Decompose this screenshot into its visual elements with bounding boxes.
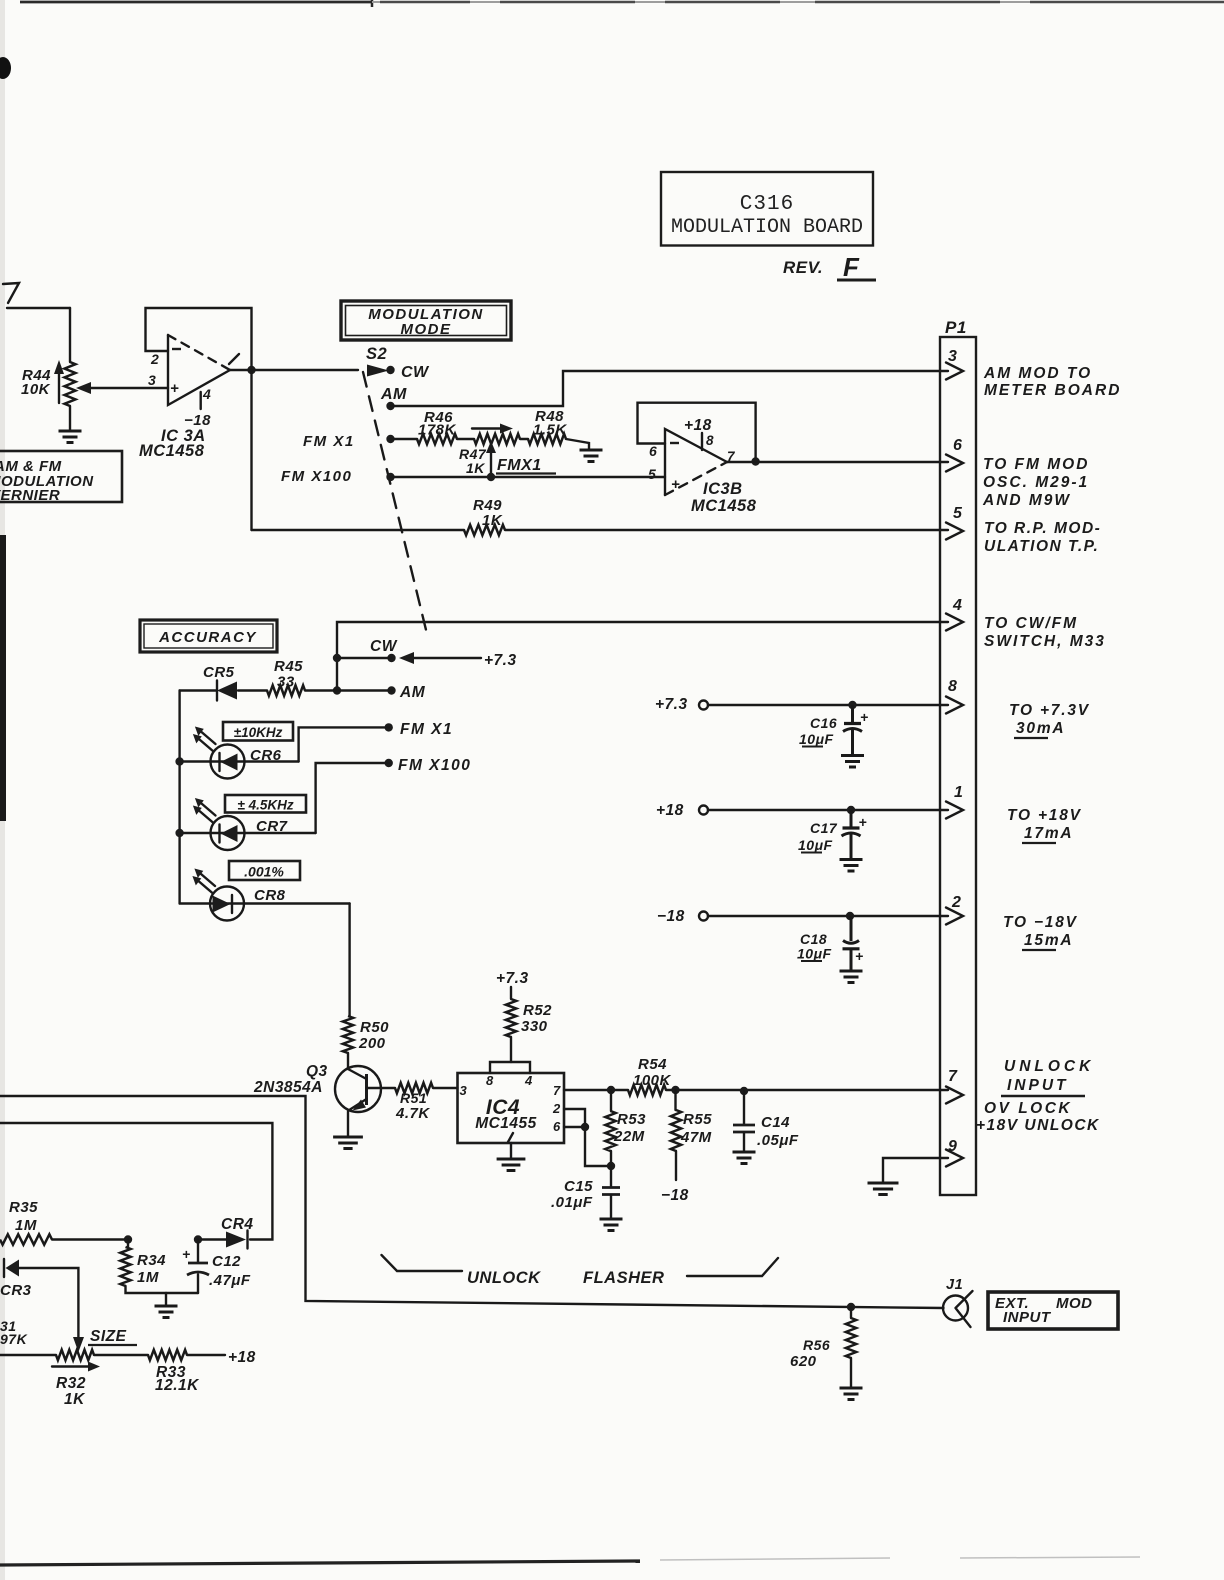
node -18 (R55)	[661, 1187, 689, 1204]
potentiometer R44	[21, 308, 76, 430]
resistor R49	[252, 497, 949, 535]
svg-text:22M: 22M	[613, 1128, 645, 1145]
svg-text:+7.3: +7.3	[496, 970, 529, 987]
svg-text:MODULATION BOARD: MODULATION BOARD	[671, 216, 863, 239]
wire IC4 pins 2,6 to C15	[564, 1109, 615, 1170]
label box .001%	[229, 861, 300, 880]
svg-text:2: 2	[150, 351, 159, 367]
label box ACCURACY	[140, 620, 277, 652]
label box &#177;10KHz	[223, 722, 293, 741]
svg-text:8: 8	[948, 678, 957, 695]
svg-text:SWITCH, M33: SWITCH, M33	[984, 633, 1106, 650]
svg-text:178K: 178K	[418, 422, 457, 439]
svg-text:+18: +18	[228, 1349, 256, 1366]
wire IC3A pin3 to R44 wiper	[76, 382, 168, 394]
svg-text:2: 2	[552, 1101, 561, 1116]
svg-text:C316: C316	[740, 193, 794, 216]
svg-text:R35: R35	[9, 1199, 38, 1216]
svg-text:VERNIER: VERNIER	[0, 487, 60, 504]
wire IC3A output down to R49 line	[250, 370, 252, 530]
svg-text:+18: +18	[656, 802, 684, 819]
terminal +7.3	[655, 696, 948, 713]
resistor R52	[506, 999, 552, 1062]
resistor R55	[671, 1090, 712, 1180]
svg-text:CW: CW	[370, 638, 398, 655]
resistor R46	[417, 409, 457, 444]
node +7.3 (R52)	[496, 970, 529, 999]
svg-text:C16: C16	[810, 715, 837, 731]
node IC3A output	[247, 366, 255, 374]
wire FM X1 contact to R46	[391, 438, 418, 440]
svg-text:MC1458: MC1458	[691, 497, 757, 515]
svg-text:TO +7.3V: TO +7.3V	[1009, 702, 1090, 719]
svg-text:UNLOCK: UNLOCK	[1004, 1058, 1094, 1075]
svg-text:REV.: REV.	[783, 258, 823, 277]
svg-text:OV LOCK: OV LOCK	[984, 1100, 1072, 1117]
diode CR5	[180, 664, 237, 701]
svg-text:FMX1: FMX1	[497, 457, 542, 474]
ground (IC4 pin1)	[497, 1159, 526, 1171]
svg-text:8: 8	[706, 433, 714, 448]
svg-text:CR6: CR6	[250, 747, 282, 764]
svg-text:IC3B: IC3B	[703, 480, 743, 498]
ground (C14)	[733, 1152, 756, 1164]
svg-text:10K: 10K	[21, 381, 51, 398]
svg-text:C14: C14	[761, 1114, 790, 1131]
wire AM contact to P1 pin3	[391, 371, 949, 406]
capacitor C15	[551, 1166, 620, 1218]
resistor R54	[628, 1056, 672, 1095]
svg-text:5: 5	[648, 466, 656, 482]
svg-text:R32: R32	[56, 1375, 86, 1392]
svg-text:METER BOARD: METER BOARD	[984, 382, 1121, 399]
switch S2B contact FM X1	[299, 721, 454, 762]
svg-text:MOD: MOD	[1056, 1295, 1093, 1312]
ground (C15)	[600, 1219, 623, 1231]
capacitor C17	[798, 810, 867, 859]
svg-text:1M: 1M	[15, 1217, 37, 1234]
svg-text:+: +	[182, 1246, 191, 1262]
svg-text:+: +	[860, 709, 869, 725]
svg-text:CR3: CR3	[0, 1282, 32, 1299]
label box MODULATION MODE	[341, 301, 511, 340]
svg-text:CW: CW	[401, 364, 430, 381]
svg-text:4: 4	[524, 1073, 533, 1088]
resistor R50	[343, 1016, 389, 1053]
switch S2	[366, 345, 387, 363]
svg-text:4.7K: 4.7K	[395, 1105, 430, 1122]
svg-text:1M: 1M	[137, 1269, 159, 1286]
node +18 (R33)	[228, 1349, 256, 1366]
wire IC4 pin7 net	[564, 1086, 948, 1095]
connector J1	[943, 1277, 973, 1327]
P1 pin 2	[946, 894, 1078, 950]
svg-text:INPUT: INPUT	[1003, 1309, 1052, 1326]
svg-text:.001%: .001%	[244, 864, 284, 880]
ground (C17)	[840, 860, 863, 872]
svg-text:±10KHz: ±10KHz	[234, 725, 283, 740]
svg-text:MODE: MODE	[401, 321, 452, 338]
brace UNLOCK FLASHER	[382, 1255, 779, 1287]
P1 pin 6	[946, 437, 1089, 509]
svg-text:1.5K: 1.5K	[533, 422, 567, 439]
wire R48 to ground	[566, 439, 589, 450]
svg-text:R51: R51	[400, 1090, 427, 1106]
potentiometer R32 (SIZE)	[0, 1328, 148, 1408]
resistor R31 (off-page)	[0, 1318, 28, 1347]
ground (C18)	[840, 971, 863, 983]
wire S2B common rail to P1 pin4	[337, 622, 948, 691]
resistor R56	[790, 1303, 856, 1387]
svg-text:R50: R50	[360, 1019, 389, 1036]
resistor R53	[605, 1090, 646, 1166]
label REV. F	[783, 252, 876, 282]
P1 pin 9	[946, 1138, 963, 1167]
svg-text:R53: R53	[617, 1111, 646, 1128]
svg-text:AND M9W: AND M9W	[982, 492, 1071, 509]
svg-text:.01μF: .01μF	[551, 1194, 593, 1211]
node 7 (off-page wire label)	[3, 283, 70, 308]
wire EXT MOD line (to J1)	[0, 1096, 944, 1308]
P1 pin 3	[946, 348, 1121, 399]
svg-text:7: 7	[948, 1068, 958, 1085]
capacitor C14	[733, 1091, 799, 1151]
capacitor C12	[182, 1235, 251, 1293]
svg-text:CR8: CR8	[254, 887, 286, 904]
label box AM & FM MODULATION VERNIER	[0, 451, 122, 504]
svg-text:4: 4	[202, 386, 211, 402]
svg-text:TO CW/FM: TO CW/FM	[984, 615, 1078, 632]
svg-text:10μF: 10μF	[798, 837, 833, 853]
svg-text:−18: −18	[657, 908, 685, 925]
svg-text:+18V UNLOCK: +18V UNLOCK	[976, 1117, 1100, 1134]
svg-text:FM X1: FM X1	[303, 433, 355, 450]
svg-text:17mA: 17mA	[1024, 825, 1073, 842]
switch S2 contact FM X100	[281, 468, 395, 485]
diode CR3	[0, 1259, 84, 1352]
wire P1 pin9 to ground	[883, 1158, 948, 1182]
svg-text:TO FM MOD: TO FM MOD	[983, 456, 1089, 473]
capacitor C18	[797, 916, 864, 971]
svg-text:10μF: 10μF	[797, 946, 832, 962]
P1 pin 5	[946, 505, 1101, 555]
svg-text:INPUT: INPUT	[1007, 1077, 1069, 1094]
svg-text:FM X100: FM X100	[281, 468, 352, 485]
wire FM X100 contact to IC3B pin5	[391, 473, 666, 481]
wire +7.3 to S2B CW contact	[399, 652, 481, 664]
resistor R35	[0, 1199, 128, 1245]
wire CR4 return line	[0, 1123, 272, 1240]
ground (C16)	[841, 756, 864, 768]
label box &#177;4.5KHz	[225, 795, 306, 813]
switch S2 contact CW	[386, 364, 430, 381]
svg-text:TO −18V: TO −18V	[1003, 914, 1078, 931]
svg-text:ACCURACY: ACCURACY	[158, 629, 257, 646]
svg-text:TO +18V: TO +18V	[1007, 807, 1082, 824]
svg-text:620: 620	[790, 1353, 817, 1370]
svg-text:C15: C15	[564, 1178, 593, 1195]
svg-text:.47μF: .47μF	[209, 1272, 251, 1289]
svg-text:Q3: Q3	[306, 1063, 328, 1080]
svg-text:+: +	[170, 380, 179, 397]
LED CR6	[175, 727, 298, 779]
svg-text:TO R.P. MOD-: TO R.P. MOD-	[984, 520, 1101, 537]
svg-text:FM X1: FM X1	[400, 721, 453, 738]
P1 pin 8	[946, 678, 1090, 738]
svg-text:2N3854A: 2N3854A	[253, 1079, 323, 1096]
svg-text:6: 6	[649, 443, 657, 459]
svg-text:C12: C12	[212, 1253, 241, 1270]
wire IC3B output to P1 pin6	[727, 461, 948, 463]
connector P1	[940, 318, 976, 1195]
svg-text:330: 330	[521, 1018, 548, 1035]
capacitor C16	[799, 705, 869, 755]
ground (R44)	[59, 431, 82, 443]
IC timer U-IC4 MC1455	[458, 1062, 565, 1158]
svg-text:−18: −18	[661, 1187, 689, 1204]
svg-text:47M: 47M	[680, 1129, 712, 1146]
wire IC3A output to S2 CW contact (arrow)	[230, 365, 389, 377]
wire IC3A feedback loop	[146, 308, 252, 370]
node IC3B output	[751, 457, 759, 465]
potentiometer R47	[459, 424, 520, 478]
resistor R33	[148, 1350, 225, 1394]
svg-text:FM X100: FM X100	[398, 757, 471, 774]
node FMX1	[496, 457, 556, 474]
svg-text:100K: 100K	[633, 1072, 672, 1089]
resistor R34	[120, 1235, 198, 1293]
svg-text:R45: R45	[274, 658, 303, 675]
svg-text:10μF: 10μF	[799, 731, 834, 747]
node +7.3 (S2B)	[484, 652, 517, 669]
svg-text:+18: +18	[684, 417, 712, 434]
svg-text:+: +	[855, 948, 864, 964]
svg-text:1K: 1K	[482, 512, 503, 529]
svg-text:AM MOD TO: AM MOD TO	[983, 365, 1092, 382]
svg-text:1K: 1K	[466, 460, 485, 476]
svg-text:12.1K: 12.1K	[155, 1377, 200, 1394]
P1 pin 1	[946, 784, 1082, 843]
svg-text:UNLOCK: UNLOCK	[467, 1269, 541, 1287]
terminal -18	[657, 908, 948, 925]
switch S2 wiper (dashed)	[363, 372, 428, 638]
svg-text:CR4: CR4	[221, 1216, 254, 1233]
wire CR8 to R50	[348, 904, 350, 1017]
terminal +18	[656, 802, 948, 819]
svg-text:CR7: CR7	[256, 818, 288, 835]
svg-text:+: +	[859, 814, 868, 830]
svg-text:AM: AM	[380, 386, 407, 403]
svg-text:R54: R54	[638, 1056, 667, 1073]
svg-text:P1: P1	[945, 318, 967, 337]
wire R46 to R47	[457, 438, 474, 440]
svg-text:+7.3: +7.3	[655, 696, 688, 713]
svg-text:33: 33	[277, 674, 295, 691]
svg-text:97K: 97K	[0, 1331, 28, 1347]
svg-text:R55: R55	[683, 1111, 712, 1128]
svg-text:200: 200	[358, 1035, 386, 1052]
svg-text:3: 3	[148, 372, 156, 388]
ground (R56)	[840, 1388, 863, 1400]
svg-text:6: 6	[953, 437, 962, 454]
resistor R51	[367, 1083, 458, 1122]
wire IC3B feedback loop	[638, 403, 756, 462]
svg-text:1: 1	[954, 784, 963, 801]
title box C316 MODULATION BOARD	[661, 172, 873, 246]
svg-text:R34: R34	[137, 1252, 166, 1269]
svg-text:30mA: 30mA	[1016, 720, 1065, 737]
svg-text:6: 6	[553, 1119, 561, 1134]
svg-text:F: F	[843, 252, 860, 282]
svg-text:15mA: 15mA	[1024, 932, 1073, 949]
ground (R34/C12)	[155, 1293, 178, 1318]
ground (Q3)	[333, 1137, 363, 1149]
switch S2B contact CW	[333, 638, 398, 662]
ground (pin9)	[868, 1183, 899, 1195]
switch S2 contact AM	[380, 386, 407, 410]
op-amp U-IC3B	[648, 417, 757, 515]
svg-text:AM: AM	[399, 684, 426, 701]
op-amp U-IC3A	[139, 335, 239, 460]
svg-text:SIZE: SIZE	[90, 1328, 127, 1345]
svg-text:ULATION T.P.: ULATION T.P.	[984, 538, 1099, 555]
svg-text:3: 3	[948, 348, 957, 365]
svg-text:± 4.5KHz: ± 4.5KHz	[237, 798, 293, 813]
svg-text:R56: R56	[803, 1337, 830, 1353]
svg-text:OSC. M29-1: OSC. M29-1	[983, 474, 1089, 491]
switch S2B contact FM X100	[316, 757, 472, 833]
diode CR4	[198, 1216, 254, 1249]
LED CR8	[180, 869, 350, 921]
svg-text:+: +	[671, 476, 680, 493]
ground (R48)	[580, 450, 603, 462]
P1 pin 7	[946, 1058, 1100, 1134]
wire R47 to R48	[520, 438, 528, 440]
P1 pin 4	[946, 597, 1106, 650]
svg-text:MC1458: MC1458	[139, 442, 205, 460]
resistor R45	[238, 658, 305, 696]
wire LED anode rail	[178, 691, 180, 904]
svg-text:7: 7	[553, 1083, 561, 1098]
svg-text:8: 8	[486, 1073, 494, 1088]
switch S2 contact FM X1	[303, 433, 395, 450]
label box EXT. MOD INPUT	[988, 1292, 1118, 1329]
svg-text:3: 3	[460, 1083, 468, 1098]
svg-text:S2: S2	[366, 345, 387, 363]
svg-text:J1: J1	[946, 1277, 963, 1293]
resistor R48	[528, 408, 567, 444]
svg-text:FLASHER: FLASHER	[583, 1269, 664, 1287]
svg-text:+7.3: +7.3	[484, 652, 517, 669]
svg-text:MC1455: MC1455	[475, 1115, 537, 1132]
svg-text:5: 5	[953, 505, 963, 522]
svg-text:1K: 1K	[64, 1391, 86, 1408]
svg-text:R52: R52	[523, 1002, 552, 1019]
svg-text:2: 2	[951, 894, 961, 911]
transistor Q3	[253, 1053, 381, 1136]
svg-text:.05μF: .05μF	[757, 1132, 799, 1149]
svg-text:CR5: CR5	[203, 664, 235, 681]
LED CR7	[175, 798, 315, 850]
svg-text:4: 4	[952, 597, 962, 614]
switch S2B contact AM	[305, 684, 426, 701]
svg-text:C17: C17	[810, 820, 838, 836]
